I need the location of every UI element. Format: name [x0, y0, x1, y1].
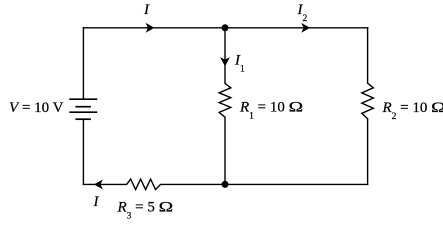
wire middle lower (R1 to bottom node): [224, 117, 226, 184]
svg-text:I: I: [143, 2, 150, 18]
current arrow I2 (top wire right, pointing right): [303, 24, 309, 31]
svg-text:I: I: [93, 194, 100, 210]
node at top junction (filled dot): [222, 24, 229, 31]
wire bottom right (R3 to bottom-right corner): [161, 183, 368, 185]
wire right upper (top-right corner down to R2): [367, 28, 369, 83]
resistor R2 (zigzag, right branch): [362, 83, 374, 119]
wire middle upper (node at top to R1): [224, 28, 226, 84]
wire left upper (top-left corner down to battery + plate): [82, 28, 84, 99]
resistor R1 (zigzag, middle branch): [219, 83, 231, 117]
current arrow I (bottom wire, pointing left): [95, 181, 101, 188]
wire bottom left (bottom-left corner to R3): [83, 183, 126, 185]
svg-text:I1: I1: [234, 53, 245, 75]
current arrow I (top wire, pointing right): [147, 24, 153, 31]
wire left lower (battery - plate down to bottom-left corner): [82, 119, 84, 184]
wire top (node A to node B along top): [83, 27, 367, 29]
battery V (voltage source V = 10 V): [69, 99, 97, 119]
svg-text:R3 = 5 Ω: R3 = 5 Ω: [117, 199, 174, 221]
svg-text:R1 = 10 Ω: R1 = 10 Ω: [239, 100, 303, 122]
current arrow I1 (middle branch, pointing down): [222, 59, 229, 65]
svg-text:V = 10 V: V = 10 V: [9, 100, 64, 116]
svg-text:I2: I2: [297, 2, 308, 24]
resistor R3 (zigzag, bottom wire): [127, 179, 161, 190]
svg-text:R2 = 10 Ω: R2 = 10 Ω: [382, 100, 443, 122]
wire right lower (R2 to bottom-right corner): [367, 119, 369, 185]
node at bottom junction (filled dot): [222, 181, 229, 188]
